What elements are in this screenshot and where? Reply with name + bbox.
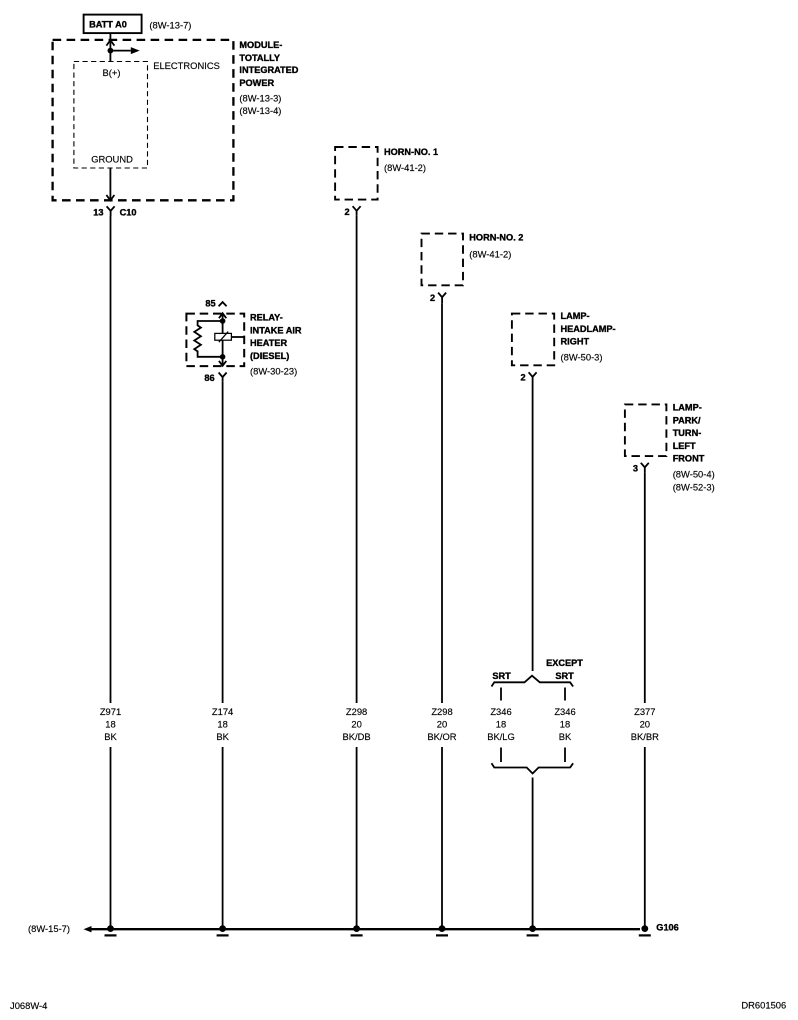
svg-text:20: 20 bbox=[437, 719, 447, 730]
svg-text:LAMP-: LAMP- bbox=[673, 403, 702, 413]
arrow feed to other circuits bbox=[110, 47, 139, 54]
svg-text:20: 20 bbox=[640, 719, 650, 730]
splice junction Z298 BK/DB to bus bbox=[351, 925, 363, 936]
svg-text:18: 18 bbox=[105, 719, 115, 730]
splice junction Z298 BK/OR to bus bbox=[436, 925, 448, 936]
splice junction Z346 to bus bbox=[527, 925, 539, 936]
pin 13 connector C10 bbox=[93, 206, 136, 217]
svg-text:(8W-50-3): (8W-50-3) bbox=[561, 352, 603, 363]
ground bus wire bbox=[92, 928, 641, 930]
wire Z346 BK upper stub bbox=[564, 688, 566, 701]
svg-text:ELECTRONICS: ELECTRONICS bbox=[153, 60, 220, 71]
arrow out of relay bottom edge bbox=[219, 361, 226, 366]
svg-text:2: 2 bbox=[344, 207, 349, 217]
pin 3 park/turn lamp bbox=[633, 463, 649, 474]
svg-text:18: 18 bbox=[217, 719, 227, 730]
node relay top junction bbox=[220, 318, 226, 324]
svg-text:B(+): B(+) bbox=[103, 67, 121, 78]
svg-text:2: 2 bbox=[520, 373, 525, 383]
node B(+) junction dot bbox=[108, 48, 114, 54]
svg-text:(8W-13-4): (8W-13-4) bbox=[239, 105, 281, 116]
wire BATT A0 feed into module bbox=[109, 33, 111, 61]
wire Z971 lower segment bbox=[110, 747, 112, 928]
splice junction Z971 to bus bbox=[105, 925, 117, 936]
connector BATT A0 bbox=[84, 15, 142, 33]
svg-text:(8W-50-4): (8W-50-4) bbox=[673, 468, 715, 479]
lamp park/turn left front dashed outline bbox=[625, 404, 667, 456]
svg-text:Z346: Z346 bbox=[554, 706, 575, 717]
svg-text:BK: BK bbox=[104, 731, 117, 742]
svg-text:HEADLAMP-: HEADLAMP- bbox=[561, 324, 616, 334]
label wire Z174 18 BK bbox=[212, 706, 233, 742]
svg-text:HEATER: HEATER bbox=[250, 338, 287, 348]
svg-text:(8W-13-7): (8W-13-7) bbox=[149, 19, 191, 30]
svg-text:HORN-NO. 1: HORN-NO. 1 bbox=[384, 147, 438, 157]
svg-text:(8W-13-3): (8W-13-3) bbox=[239, 92, 281, 103]
pin 85 bbox=[205, 298, 226, 308]
arrow feed up at module top edge bbox=[106, 40, 114, 46]
wire Z298 BK/DB upper segment bbox=[356, 216, 358, 703]
label wire Z971 18 BK bbox=[100, 706, 121, 742]
node relay bottom junction bbox=[220, 354, 226, 360]
lamp park/turn left front name label bbox=[673, 403, 715, 493]
svg-text:(8W-15-7): (8W-15-7) bbox=[28, 923, 70, 934]
svg-text:20: 20 bbox=[351, 719, 361, 730]
svg-text:(8W-52-3): (8W-52-3) bbox=[673, 482, 715, 493]
pin 2 headlamp bbox=[520, 372, 536, 382]
svg-text:Z298: Z298 bbox=[346, 706, 367, 717]
label wire Z377 20 BK/BR bbox=[631, 706, 659, 742]
wire GROUND to module edge bbox=[109, 168, 111, 199]
pin 2 horn no.2 bbox=[430, 293, 446, 304]
svg-text:EXCEPT: EXCEPT bbox=[546, 658, 583, 668]
svg-text:86: 86 bbox=[204, 373, 214, 383]
wire Z346 BK/LG upper stub bbox=[500, 688, 502, 701]
svg-text:C10: C10 bbox=[120, 207, 137, 217]
svg-text:INTEGRATED: INTEGRATED bbox=[239, 65, 298, 75]
svg-text:Z971: Z971 bbox=[100, 706, 121, 717]
svg-text:(8W-41-2): (8W-41-2) bbox=[384, 162, 426, 173]
relay K1 name label bbox=[250, 313, 302, 377]
label wire Z346 18 BK bbox=[554, 706, 575, 742]
electronics inner dashed box bbox=[74, 62, 148, 169]
svg-text:BK/DB: BK/DB bbox=[343, 731, 371, 742]
arrow into relay top edge bbox=[219, 313, 226, 318]
ground G106 terminal dot bbox=[639, 925, 651, 936]
relay coil L1 bbox=[215, 332, 232, 343]
svg-text:POWER: POWER bbox=[239, 78, 274, 88]
svg-text:BK/OR: BK/OR bbox=[427, 731, 456, 742]
svg-text:PARK/: PARK/ bbox=[673, 415, 701, 425]
svg-text:TOTALLY: TOTALLY bbox=[239, 53, 280, 63]
svg-text:BK/LG: BK/LG bbox=[487, 731, 515, 742]
svg-text:HORN-NO. 2: HORN-NO. 2 bbox=[469, 233, 523, 243]
svg-text:Z346: Z346 bbox=[490, 706, 511, 717]
arrow bus to 8W-15-7 bbox=[84, 926, 92, 932]
resistor relay suppression zigzag bbox=[194, 321, 222, 357]
svg-text:G106: G106 bbox=[656, 923, 678, 933]
module U7 TIPM dashed outline bbox=[53, 40, 234, 200]
wire Z377 lower segment bbox=[644, 747, 646, 928]
lamp headlamp right name label bbox=[561, 311, 616, 363]
svg-text:SRT: SRT bbox=[555, 671, 574, 681]
svg-text:MODULE-: MODULE- bbox=[239, 40, 282, 50]
svg-text:RELAY-: RELAY- bbox=[250, 313, 283, 323]
wire Z971 upper segment bbox=[110, 216, 112, 703]
horn no.2 dashed outline bbox=[422, 234, 464, 286]
svg-text:(8W-41-2): (8W-41-2) bbox=[469, 249, 511, 260]
label wire Z298 20 BK/DB bbox=[343, 706, 371, 742]
splice junction Z174 to bus bbox=[217, 925, 229, 936]
arrow ground out of module bottom edge bbox=[106, 195, 114, 200]
wire Z377 upper segment bbox=[644, 472, 646, 703]
svg-text:18: 18 bbox=[496, 719, 506, 730]
wire Z346 BK/LG lower stub bbox=[500, 748, 502, 763]
svg-text:DR601506: DR601506 bbox=[741, 1000, 786, 1011]
wire Z346 trunk upper bbox=[532, 383, 534, 672]
svg-text:LAMP-: LAMP- bbox=[561, 311, 590, 321]
svg-text:BK: BK bbox=[216, 731, 229, 742]
label wire Z298 20 BK/OR bbox=[427, 706, 456, 742]
svg-text:J068W-4: J068W-4 bbox=[10, 1000, 47, 1011]
svg-text:BATT A0: BATT A0 bbox=[89, 20, 127, 30]
pin 86 bbox=[204, 373, 226, 383]
svg-text:SRT: SRT bbox=[492, 671, 511, 681]
horn no.1 dashed outline bbox=[335, 147, 378, 200]
wire Z346 BK lower stub bbox=[564, 748, 566, 763]
svg-text:LEFT: LEFT bbox=[673, 441, 696, 451]
svg-text:13: 13 bbox=[93, 207, 103, 217]
wire Z174 lower segment bbox=[222, 747, 224, 928]
wire coil to relay right edge bbox=[231, 336, 244, 338]
label wire Z346 18 BK/LG bbox=[487, 706, 515, 742]
svg-text:Z377: Z377 bbox=[634, 706, 655, 717]
wire relay coil center bbox=[222, 314, 224, 366]
svg-text:GROUND: GROUND bbox=[91, 153, 133, 164]
svg-text:18: 18 bbox=[560, 719, 570, 730]
horn no.1 name label bbox=[384, 147, 438, 173]
svg-text:2: 2 bbox=[430, 293, 435, 303]
lamp headlamp right dashed outline bbox=[512, 314, 554, 366]
svg-text:INTAKE AIR: INTAKE AIR bbox=[250, 325, 302, 335]
brace wire merge bottom bbox=[492, 763, 574, 773]
horn no.2 name label bbox=[469, 233, 523, 260]
svg-text:BK: BK bbox=[559, 731, 572, 742]
wire Z298 BK/DB lower segment bbox=[356, 747, 358, 928]
label EXCEPT SRT bbox=[546, 658, 583, 681]
wire Z298 BK/OR lower segment bbox=[441, 747, 443, 928]
brace wire split top bbox=[492, 676, 574, 687]
wire Z174 upper segment bbox=[222, 382, 224, 703]
module U7 TIPM name label bbox=[239, 40, 298, 116]
wire Z298 BK/OR upper segment bbox=[441, 303, 443, 703]
svg-text:FRONT: FRONT bbox=[673, 454, 705, 464]
svg-text:85: 85 bbox=[205, 298, 215, 308]
svg-text:Z174: Z174 bbox=[212, 706, 233, 717]
svg-text:BK/BR: BK/BR bbox=[631, 731, 659, 742]
svg-text:Z298: Z298 bbox=[431, 706, 452, 717]
wire Z346 trunk lower bbox=[532, 778, 534, 929]
relay K1 intake air heater dashed outline bbox=[186, 314, 244, 367]
svg-text:3: 3 bbox=[633, 464, 638, 474]
svg-text:TURN-: TURN- bbox=[673, 428, 702, 438]
svg-text:RIGHT: RIGHT bbox=[561, 337, 590, 347]
svg-text:(8W-30-23): (8W-30-23) bbox=[250, 366, 297, 377]
svg-text:(DIESEL): (DIESEL) bbox=[250, 351, 289, 361]
pin 2 horn no.1 bbox=[344, 206, 360, 217]
